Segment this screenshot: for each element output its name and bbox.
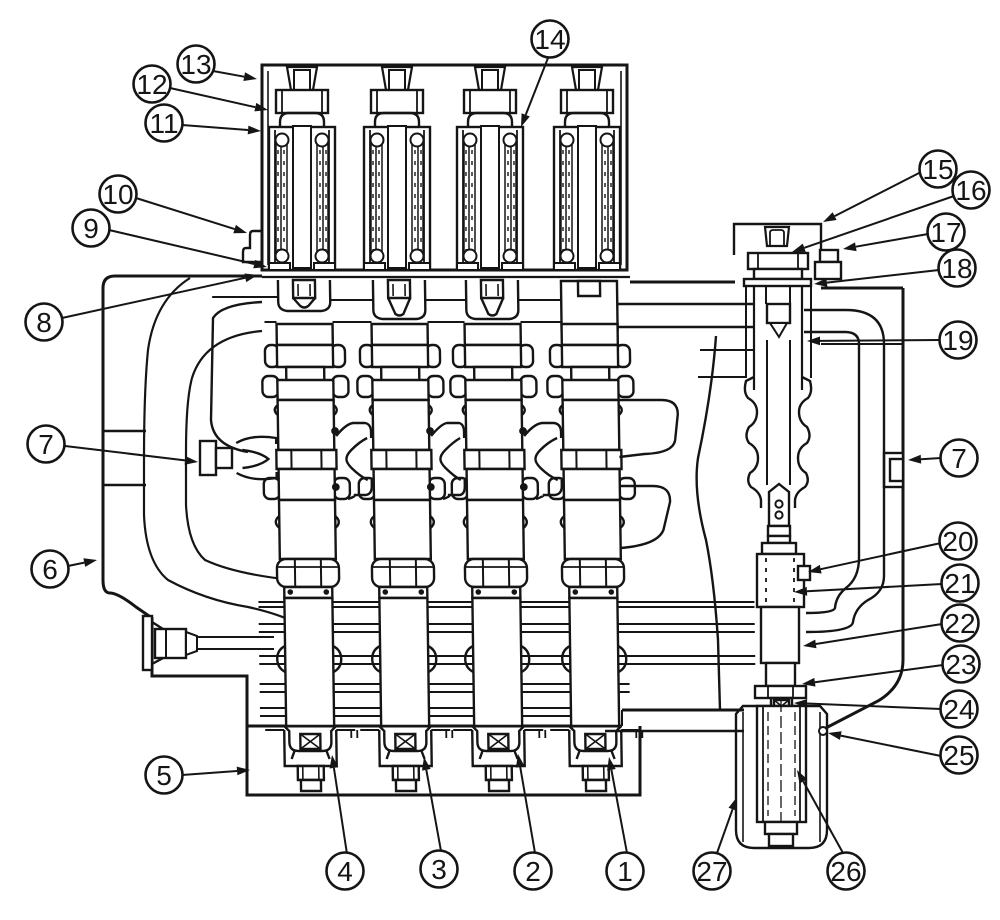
spool 3 inlet cup [466,280,519,319]
spool 1 gland nut [277,559,339,587]
callout 9 [73,210,110,247]
spool 1 body [262,324,351,559]
spool 1 stem [293,280,315,308]
spool 3 retainer band [472,587,520,598]
svg-text:12: 12 [136,69,167,100]
callout 11 [146,105,183,142]
svg-text:14: 14 [534,24,565,55]
leader 3 [422,757,441,851]
spring housing 20 [757,554,810,607]
spool 4 gland nut [562,559,624,587]
callout 2 [515,853,552,890]
svg-text:11: 11 [149,108,178,139]
leader 15 [823,172,921,222]
callout 23 [943,646,980,683]
svg-text:22: 22 [944,608,975,639]
relief plug [765,227,789,246]
svg-text:25: 25 [943,740,974,771]
leader 20 [808,543,941,574]
main valve body outline [103,276,903,731]
spool 4 lower land [561,598,627,726]
upper gallery lines [212,297,561,322]
spool 1 seal recess [265,730,358,766]
leader 23 [802,665,943,687]
callout 20 [940,523,977,560]
leader 18 [814,270,939,287]
spool 2 lower land [371,598,437,726]
relief bracket 15 [734,224,821,279]
spring cartridge 4 [554,126,620,270]
leader 6 [68,558,97,567]
leader 27 [717,797,737,853]
callout 25 [941,737,978,774]
callout 7 [941,440,978,477]
spool 3 seal recess [453,730,546,766]
spool 2 retainer band [379,587,427,598]
callout 5 [146,757,183,794]
hex fitting 17 18 [815,250,841,279]
passage arc right [804,310,902,344]
spool 2 inlet cup [373,280,426,319]
callout 10 [100,176,137,213]
passage S-curves near relief [806,344,884,632]
callout 17 [928,214,965,251]
leader 1 [607,757,627,853]
relief pilot with dots [769,484,789,526]
left mid passage vertical [211,302,262,452]
callout 12 [134,66,171,103]
cap plug 4 [572,67,602,90]
bottom cover plate 5 [247,726,640,795]
spool 2 stem [388,280,410,316]
callout 13 [178,46,215,83]
spool 4 retainer band [569,587,617,598]
leader 25 [828,731,941,756]
cap plug 2 [382,67,412,90]
cylinder bottom plug [765,822,797,846]
spool 3 seal gland [472,726,524,759]
relief cartridge 22 [761,607,799,663]
plug cylinder 26 [757,700,806,826]
spring bonnet 4 [565,113,609,129]
spool 2 bottom plug [393,766,419,791]
transfer webs between spools [332,423,562,499]
spool 4 seal recess [550,730,643,766]
callout 22 [942,605,979,642]
callout 24 [941,691,978,728]
svg-text:1: 1 [617,856,633,887]
svg-text:6: 6 [42,554,58,585]
callout 8 [26,304,63,341]
spring cap 4 [561,90,613,113]
lower housing 27 [736,706,827,848]
spool 2 seal gland [379,726,431,759]
svg-text:16: 16 [955,175,986,206]
svg-text:20: 20 [942,526,973,557]
leader 13 [213,71,257,81]
svg-text:24: 24 [943,694,974,725]
svg-text:15: 15 [922,154,953,185]
relief spring seats [762,526,796,554]
callout 7 [28,426,65,463]
left port nut [155,629,197,658]
leader 7R [908,455,941,464]
spring cap 2 [371,90,423,113]
leader 21 [794,584,942,596]
leader 22 [803,624,942,648]
top cover plate 13 [262,65,630,277]
relief washer base [744,279,811,286]
svg-text:4: 4 [337,856,353,887]
spool 4 bottom plug [583,766,609,791]
relief gallery stubs [698,350,754,377]
mount band right of plate [605,710,744,731]
leader 8 [62,274,258,319]
callout 18 [939,250,976,287]
body sweep wall right of spool 4 [697,336,720,710]
relief bolt head 16 [748,253,808,279]
spool 1 bottom plug [298,766,324,791]
spool 3 bottom plug [486,766,512,791]
spool 2 gland nut [372,559,434,587]
pin 25 [819,727,827,735]
spool 3 lower land [464,598,530,726]
spool 3 body [450,324,539,559]
callout 6 [32,551,69,588]
callout 15 [920,151,957,188]
relief tube [754,286,802,390]
cover left tabs 9 10 [243,231,262,262]
svg-text:17: 17 [930,217,961,248]
spool 4 top block [561,281,618,330]
relief collar 23 [755,686,806,698]
leader 10 [136,198,247,233]
leader 24 [794,699,941,709]
svg-text:3: 3 [431,854,447,885]
relief poppet wavy section [745,340,811,508]
leader 9 [109,230,267,268]
spool 3 gland nut [465,559,527,587]
svg-text:18: 18 [941,253,972,284]
spring cartridge 2 [364,126,430,270]
svg-text:9: 9 [83,213,99,244]
svg-text:26: 26 [830,856,861,887]
spool 2 seal recess [360,730,453,766]
spool 1 lower land [276,598,342,726]
port boss 7 left [200,441,232,475]
spool 4 seal gland [569,726,621,759]
leader 4 [330,755,347,854]
spool 4 body [547,324,636,559]
svg-text:13: 13 [180,49,211,80]
left port flange [143,616,163,670]
svg-text:8: 8 [36,307,52,338]
svg-text:19: 19 [942,325,973,356]
spring cap 3 [464,90,516,113]
svg-text:7: 7 [951,443,967,474]
svg-text:5: 5 [156,760,172,791]
relief lower stem [766,663,795,686]
leader 14 [521,58,548,127]
leader 5 [182,767,250,776]
leader 19 [807,337,940,346]
body interior lines to left port [103,431,146,485]
spring cartridge 3 [457,126,523,270]
cap plug 1 [287,67,317,90]
spool 1 inlet cup [278,280,330,311]
leader 26 [797,770,843,853]
leader 12 [170,88,268,111]
leader 2 [516,754,535,853]
spring bonnet 1 [280,113,324,129]
callout 19 [940,322,977,359]
callout 1 [607,853,644,890]
svg-text:10: 10 [102,179,133,210]
left pipe [197,637,274,649]
web left of spool 1 [236,437,277,479]
spool 2 body [357,324,446,559]
spring cap 1 [276,90,328,113]
spring bonnet 2 [375,113,419,129]
callout 3 [421,851,458,888]
spring cartridge 1 [269,126,335,270]
leader 16 [792,196,954,252]
svg-text:21: 21 [944,568,975,599]
callout 16 [953,172,990,209]
lower passage ladder lines [258,602,756,716]
spool 3 stem [481,280,503,316]
spool 1 retainer band [284,587,332,598]
leader 17 [843,234,928,251]
callout 21 [942,565,979,602]
cap plug 3 [475,67,505,90]
body interior left chamber contour [144,278,292,621]
svg-text:27: 27 [696,856,727,887]
passages upper right [615,304,755,327]
svg-text:2: 2 [525,856,541,887]
svg-text:23: 23 [945,649,976,680]
callout 14 [532,21,569,58]
leader 7L [65,446,198,465]
web lobes right of spool 4 [619,400,680,548]
spring bonnet 3 [468,113,512,129]
svg-text:7: 7 [38,429,54,460]
spool 1 seal gland [284,726,336,759]
leader 11 [182,125,261,134]
callout 27 [694,853,731,890]
port boss 7 right edge [884,453,903,487]
relief bore walls [746,286,811,378]
callout 4 [327,853,364,890]
relief seal 24 [771,698,792,714]
callout 26 [828,853,865,890]
